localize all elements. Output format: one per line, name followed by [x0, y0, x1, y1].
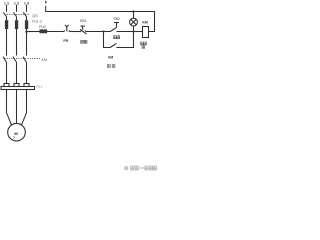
- svg-text:FU1-3: FU1-3: [32, 19, 42, 23]
- svg-text:FR1: FR1: [36, 85, 43, 89]
- svg-text:SB2: SB2: [113, 17, 120, 21]
- svg-text:KM: KM: [42, 58, 48, 62]
- svg-text:KM: KM: [108, 55, 113, 59]
- svg-text:L1: L1: [4, 1, 9, 6]
- svg-text:FR: FR: [63, 39, 68, 43]
- svg-text:3~: 3~: [13, 136, 17, 140]
- svg-text:L2: L2: [14, 1, 19, 6]
- svg-text:FU2: FU2: [39, 25, 46, 29]
- svg-text:L3: L3: [24, 1, 29, 6]
- svg-text:QS: QS: [32, 14, 38, 18]
- svg-text:SB1: SB1: [80, 19, 87, 23]
- svg-text:KM: KM: [142, 20, 147, 24]
